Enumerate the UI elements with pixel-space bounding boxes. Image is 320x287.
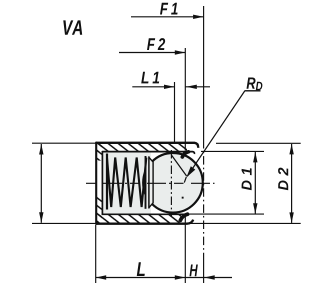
crimp lip bottom	[180, 214, 187, 220]
spring zigzag coils	[107, 158, 146, 208]
section hatch left wall upper corner	[96, 144, 102, 161]
section hatch left wall lower corner	[96, 197, 102, 224]
extension line L left	[95, 225, 97, 283]
washer disc fill	[145, 157, 153, 209]
label D2	[278, 168, 288, 191]
label D1	[242, 168, 252, 190]
dimension line L1	[132, 86, 174, 88]
arrowhead L left	[96, 275, 107, 279]
label Rd letter D	[256, 82, 263, 91]
spring end coil	[106, 154, 108, 210]
section hatch top wall	[96, 144, 187, 152]
leader arrowhead Rd	[186, 166, 195, 177]
label L1	[141, 72, 159, 84]
arrowhead D2 up	[289, 144, 293, 155]
dimension line L and H	[96, 277, 232, 279]
leader line Rd	[187, 91, 244, 176]
label VA	[63, 20, 82, 34]
dimension line body diameter left	[40, 144, 42, 223]
extension line body top left	[32, 142, 96, 144]
extension line H right lower	[203, 258, 205, 283]
label H	[190, 265, 198, 277]
arrowhead left dim up	[39, 144, 43, 155]
bore inner top edge	[102, 152, 195, 154]
ball	[143, 153, 203, 213]
label F1	[160, 3, 178, 15]
body outer bottom edge	[96, 220, 193, 224]
plunger bore interior fill	[103, 152, 152, 215]
leader tip continuation	[184, 177, 186, 183]
arrowhead L right	[175, 275, 186, 279]
arrowhead D2 down	[289, 212, 293, 223]
dimension line D2	[291, 144, 293, 223]
radius mark diagonal	[172, 155, 187, 176]
washer chamfer profile	[149, 157, 153, 207]
label Rd underline	[245, 90, 261, 92]
horizontal centerline	[86, 182, 215, 184]
extension line D1 bottom	[188, 213, 264, 215]
dimension line F1	[131, 16, 204, 18]
section hatch bottom wall	[96, 215, 181, 224]
arrowhead D1 up	[253, 152, 257, 163]
dimension line F2	[119, 52, 185, 54]
extension line D2 top	[216, 142, 301, 144]
bore inner bottom edge	[102, 213, 188, 215]
dimension line L1 tail	[185, 86, 210, 88]
label Rd letter R	[247, 77, 256, 88]
extension line D1 top	[201, 150, 264, 152]
extension line body bottom left	[32, 222, 96, 224]
arrowhead D1 down	[253, 203, 257, 214]
arrowhead L1 left	[164, 85, 175, 89]
dimension line D1	[254, 152, 256, 214]
arrowhead F1	[193, 15, 204, 19]
extension line L1	[174, 82, 176, 142]
arrowhead L1 right	[186, 85, 197, 89]
ball vertical centerline	[170, 150, 172, 217]
label F2	[147, 38, 165, 50]
label L	[137, 262, 145, 276]
centerline dot	[182, 197, 184, 199]
ball tip dash-dot centerline	[203, 140, 205, 258]
extension line D2 bottom	[190, 222, 301, 224]
extension line F2 upper	[184, 48, 186, 151]
crimp lip top	[182, 152, 188, 157]
washer left edge	[145, 156, 147, 209]
extension line F1 upper	[203, 6, 205, 140]
slot bottom line	[101, 151, 103, 215]
arrowhead H right	[204, 275, 215, 279]
body outer top edge	[96, 143, 198, 148]
arrowhead left dim down	[39, 212, 43, 223]
arrowhead F2	[175, 50, 186, 54]
body left face	[95, 142, 97, 225]
washer right edge	[148, 156, 150, 208]
extension line H left lower	[184, 215, 186, 284]
